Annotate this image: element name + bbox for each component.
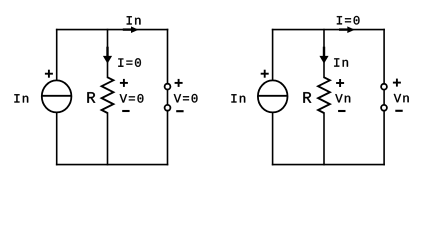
current source I1 (left circuit) [41,80,71,112]
label In (left top current) [127,16,141,24]
wire: right circuit left rail below source [272,113,274,165]
label I=0 (left branch current) [118,58,141,67]
polarity + of source I1 [45,70,53,78]
label R (left resistor) [87,92,95,103]
wire: right circuit right rail [383,30,385,165]
label V=0 (left resistor voltage) [120,94,144,103]
current arrow into R (left), I=0 [103,47,112,64]
wire: right circuit resistor branch lower [323,113,325,165]
polarity - of R voltage (right) [338,110,345,112]
wire: right circuit bottom horizontal [273,164,385,166]
current source I2 (right circuit) [258,80,288,112]
polarity + of output (left) [175,79,183,87]
wire: left circuit left rail below source [56,113,58,165]
wire: left circuit top horizontal [57,29,168,31]
polarity - of output (left) [176,110,183,112]
label In (left source) [14,94,28,102]
polarity + of output (right) [393,79,401,87]
resistor R (right circuit) zigzag [318,77,330,113]
wire: left circuit resistor branch upper [107,30,109,78]
label R (right resistor) [303,92,311,103]
output terminal top (left circuit) [165,84,171,90]
top current arrow (right circuit), I=0 [339,26,355,33]
top current arrow (left circuit), In [123,26,139,33]
label In (right source) [231,94,245,102]
label I=0 (right top current) [337,16,360,25]
polarity + of R voltage (right) [336,79,344,87]
polarity + of R voltage (left) [120,79,128,87]
current arrow into R (right), In [319,47,328,64]
wire: right circuit left rail above source [272,30,274,81]
label V=0 (left output voltage) [174,94,198,103]
wire: left circuit resistor branch lower [107,113,109,165]
wire: left circuit right rail [167,30,169,165]
output terminal bottom (right circuit) [381,105,387,111]
label Vn (right output voltage) [394,94,409,102]
resistor R (left circuit) zigzag [102,77,114,113]
output terminal bottom (left circuit) [165,105,171,111]
label In (right branch current) [334,58,348,66]
wire: right circuit resistor branch upper [323,30,325,78]
polarity - of output (right) [395,110,402,112]
wire: right circuit top horizontal [273,29,385,31]
label Vn (right resistor voltage) [335,94,350,102]
polarity - of R voltage (left) [122,110,129,112]
output terminal top (right circuit) [381,84,387,90]
polarity + of source I2 [261,70,269,78]
wire: left circuit bottom horizontal [57,164,168,166]
wire: left circuit left rail above source [56,30,58,81]
